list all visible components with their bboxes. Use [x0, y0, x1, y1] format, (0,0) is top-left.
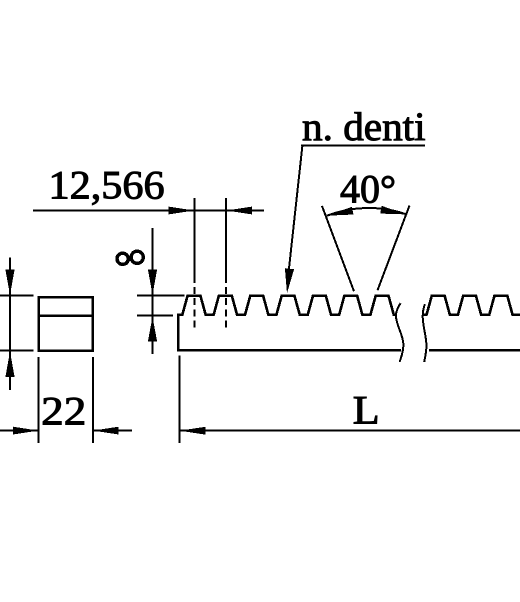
40 deg left flank line	[322, 206, 354, 291]
extension line tooth2 center	[225, 198, 227, 283]
40 deg left arrow	[327, 207, 354, 216]
n. denti leader line	[289, 146, 303, 272]
dim 22 left arrow	[13, 427, 39, 435]
dim 12,566 line	[33, 210, 264, 212]
svg-text:12,566: 12,566	[49, 163, 165, 208]
left dim bottom extension line	[0, 350, 34, 352]
dim 12,566 right arrow	[226, 207, 252, 215]
dim 8 root extension line	[137, 315, 173, 317]
n. denti underline	[301, 145, 425, 147]
svg-text:L: L	[353, 389, 380, 433]
break line right	[423, 304, 427, 362]
dim 22 right arrow	[93, 427, 119, 435]
dim 22 line left piece	[0, 430, 39, 432]
rack bottom line left segment	[178, 349, 401, 352]
dim L line	[180, 430, 520, 432]
square root-depth divider	[39, 314, 93, 317]
svg-text:n. denti: n. denti	[302, 105, 426, 149]
dim 8 arrow down	[148, 270, 157, 295]
dim 8 arrow up	[148, 317, 157, 342]
rack right profile	[423, 296, 520, 315]
dim 12,566 left arrow	[169, 207, 195, 215]
left dim top extension line	[0, 295, 34, 297]
left dim arrow up	[5, 352, 14, 378]
rack left profile	[178, 296, 396, 352]
extension line tooth1 center	[194, 198, 196, 283]
dim 8 crest extension line	[137, 295, 185, 297]
40 deg arc	[327, 208, 407, 216]
centerline tooth2 dashed	[225, 287, 227, 330]
square side view	[39, 297, 93, 351]
dim 22 line right piece	[93, 430, 132, 432]
dim 22 left extension line	[38, 357, 40, 443]
40 deg right arrow	[380, 206, 406, 215]
left vertical dimension line	[9, 257, 11, 390]
left dim arrow down	[5, 270, 14, 296]
svg-text:40°: 40°	[340, 167, 396, 212]
dim L extension line	[179, 356, 181, 444]
centerline tooth1 dashed	[194, 287, 196, 330]
dim 8 rotated text	[117, 251, 143, 264]
40 deg right flank line	[378, 206, 410, 291]
svg-text:22: 22	[41, 390, 86, 434]
break line left	[396, 303, 404, 362]
rack bottom line right segment	[429, 349, 520, 352]
dim 22 right extension line	[92, 357, 94, 443]
n. denti leader arrow	[285, 268, 294, 293]
dim L left arrow	[180, 427, 206, 435]
dim 8 vertical line	[152, 228, 154, 354]
